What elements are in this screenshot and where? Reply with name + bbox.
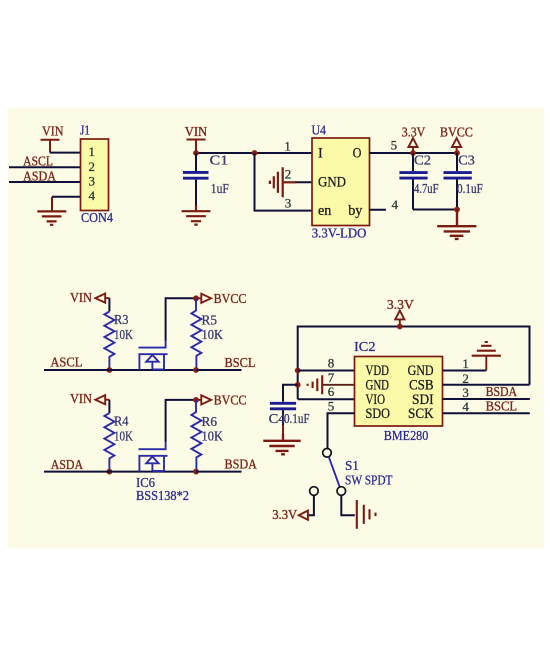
resistor R3 xyxy=(104,312,114,371)
svg-text:10K: 10K xyxy=(202,429,224,444)
svg-text:4: 4 xyxy=(392,197,399,212)
wire IC2 pin3 SDI / BSDA xyxy=(443,398,530,400)
svg-text:J1: J1 xyxy=(80,122,90,137)
junction R6/BSDA xyxy=(193,469,199,475)
wire VIN to R4 xyxy=(108,400,110,413)
svg-text:3: 3 xyxy=(462,385,469,400)
svg-text:1: 1 xyxy=(284,138,291,153)
svg-text:IC2: IC2 xyxy=(354,339,376,354)
svg-text:R6: R6 xyxy=(202,414,218,429)
wire en tie to VIN xyxy=(255,153,313,211)
switch S1 blade xyxy=(329,457,340,487)
svg-text:C2: C2 xyxy=(414,153,431,168)
wire gate2 to BVCC rail xyxy=(166,400,196,442)
resistor R5 xyxy=(191,298,201,370)
svg-text:7: 7 xyxy=(328,370,335,385)
svg-text:VIN: VIN xyxy=(70,392,92,407)
wire throw B to 3.3V xyxy=(308,495,314,515)
capacitor C1 xyxy=(183,153,209,205)
chip IC2 BME280 xyxy=(355,357,443,427)
wire gate to BVCC rail xyxy=(166,298,196,340)
junction 3.3V rail xyxy=(397,324,403,330)
junction BVCC/R6 xyxy=(193,397,199,403)
junction C4 tap xyxy=(295,382,301,388)
junction BVCC/C3 xyxy=(454,150,460,156)
junction BVCC/R5 xyxy=(193,295,199,301)
wire 3.3V rail (top) xyxy=(298,327,530,400)
wire J1 pin3 ASDA xyxy=(9,181,81,183)
junction R5/BSCL xyxy=(193,367,199,373)
junction R4/ASDA xyxy=(107,469,113,475)
junction VIN/C1 xyxy=(193,150,199,156)
wire U4 pin2 to ground xyxy=(295,181,312,183)
svg-text:SW SPDT: SW SPDT xyxy=(345,472,393,487)
ground symbol (J1) xyxy=(37,211,66,224)
svg-text:2: 2 xyxy=(89,159,96,174)
svg-text:R3: R3 xyxy=(114,312,129,327)
power port BVCC (LDO) xyxy=(452,138,461,153)
wire ASCL xyxy=(44,369,196,371)
switch S1 throw A xyxy=(337,487,346,496)
switch S1 throw B xyxy=(310,487,319,496)
junction 3.3V/C2 xyxy=(410,150,416,156)
schematic canvas xyxy=(8,108,544,548)
svg-text:10K: 10K xyxy=(114,327,133,342)
regulator U4 xyxy=(312,138,370,226)
resistor R4 xyxy=(104,413,114,472)
svg-text:1uF: 1uF xyxy=(211,181,229,196)
svg-text:BSCL: BSCL xyxy=(225,356,256,371)
svg-text:VIN: VIN xyxy=(42,124,64,139)
wire U4 by stub xyxy=(370,209,387,211)
wire IC2 pin2 CSB xyxy=(443,384,530,386)
svg-text:8: 8 xyxy=(328,356,335,371)
svg-text:CON4: CON4 xyxy=(81,210,113,225)
svg-text:by: by xyxy=(348,203,363,219)
wire U4 output xyxy=(370,152,458,154)
junction VIN/en xyxy=(252,150,258,156)
wire C4 branch xyxy=(283,385,298,402)
svg-text:O: O xyxy=(353,146,362,162)
svg-text:0.1uF: 0.1uF xyxy=(284,411,310,426)
svg-text:0.1uF: 0.1uF xyxy=(457,181,483,196)
connector J1 xyxy=(81,139,109,211)
power port 3.3V (BME280) xyxy=(395,311,404,327)
transistor IC6 (ASDA shifter) xyxy=(139,442,168,472)
wire J1 pin1 xyxy=(50,152,81,154)
power port VIN (LDO input) xyxy=(187,140,206,153)
svg-text:S1: S1 xyxy=(345,458,359,473)
svg-text:C1: C1 xyxy=(210,153,229,168)
svg-text:1: 1 xyxy=(89,144,96,159)
svg-text:10K: 10K xyxy=(202,327,224,342)
ground symbol (IC2 pin1, inverted) xyxy=(472,342,501,356)
wire IC2 pin4 SCK / BSCL xyxy=(443,412,530,414)
svg-text:BSS138*2: BSS138*2 xyxy=(136,488,189,503)
svg-text:VIN: VIN xyxy=(70,291,92,306)
wire ASDA xyxy=(44,471,196,473)
power port 3.3V (LDO) xyxy=(408,138,417,153)
svg-text:6: 6 xyxy=(328,384,335,399)
power port VIN (shifter 1, arrow left) xyxy=(95,294,109,303)
svg-text:3.3V: 3.3V xyxy=(402,125,426,140)
svg-text:R5: R5 xyxy=(202,312,218,327)
junction VDD tap xyxy=(295,368,301,374)
svg-text:3: 3 xyxy=(89,174,96,189)
svg-text:1: 1 xyxy=(462,356,469,371)
switch S1 pole xyxy=(323,449,332,458)
svg-text:3.3V-LDO: 3.3V-LDO xyxy=(312,225,367,240)
capacitor C3 xyxy=(444,153,472,210)
resistor R6 xyxy=(191,400,201,472)
wire BSCL xyxy=(196,369,242,371)
ground symbol (C1) xyxy=(182,205,211,225)
wire BSDA xyxy=(196,471,242,473)
ground symbol (C4) xyxy=(263,434,300,454)
power port VIN (J1) xyxy=(41,140,60,153)
svg-text:R4: R4 xyxy=(114,414,129,429)
ground symbol (S1, rotated right) xyxy=(357,500,376,529)
capacitor C2 xyxy=(399,153,427,210)
svg-text:4: 4 xyxy=(462,399,469,414)
svg-text:BVCC: BVCC xyxy=(214,394,247,409)
svg-text:4.7uF: 4.7uF xyxy=(414,181,439,196)
wire pin1 ground stub xyxy=(485,357,487,371)
svg-text:3.3V: 3.3V xyxy=(272,508,297,523)
wire J1 pin4 to ground xyxy=(52,196,81,198)
svg-text:BSDA: BSDA xyxy=(486,385,518,400)
transistor Q (ASCL shifter) xyxy=(139,341,168,371)
capacitor C4 xyxy=(270,403,296,434)
svg-text:C3: C3 xyxy=(458,153,475,168)
svg-text:U4: U4 xyxy=(312,122,327,137)
power port BVCC (shifter 1, arrow right) xyxy=(196,294,211,303)
wire IC2 pin6 VIO xyxy=(298,398,355,400)
svg-text:3: 3 xyxy=(285,196,292,211)
wire C2/C3 bottoms xyxy=(413,209,457,211)
wire J1 pin2 ASCL xyxy=(9,166,81,168)
svg-text:BVCC: BVCC xyxy=(214,292,247,307)
svg-text:5: 5 xyxy=(391,138,398,153)
wire VIN to U4 pin1 xyxy=(196,152,312,154)
svg-text:BME280: BME280 xyxy=(384,428,429,443)
junction R3/ASCL xyxy=(107,367,113,373)
svg-text:SCK: SCK xyxy=(408,406,434,422)
svg-text:10K: 10K xyxy=(114,429,133,444)
power port BVCC (shifter 2, arrow right) xyxy=(196,395,211,404)
svg-text:4: 4 xyxy=(89,188,96,203)
svg-text:I: I xyxy=(318,146,323,162)
ground symbol (IC2 pin7, rotated left) xyxy=(308,375,323,394)
wire throw A to ground xyxy=(341,495,355,515)
svg-text:ASDA: ASDA xyxy=(51,458,84,473)
svg-text:2: 2 xyxy=(285,167,292,182)
svg-text:en: en xyxy=(318,203,331,219)
ground symbol (C2/C3) xyxy=(437,210,476,239)
power port 3.3V (S1, arrow left) xyxy=(299,511,308,520)
wire IC2 pin5 SDO to switch xyxy=(328,413,355,448)
junction C3/ground xyxy=(454,207,460,213)
wire IC2 pin1 GND xyxy=(443,370,487,372)
wire IC2 pin8 VDD xyxy=(298,370,355,372)
svg-text:GND: GND xyxy=(318,174,346,190)
svg-text:VIN: VIN xyxy=(185,125,208,140)
svg-text:SDO: SDO xyxy=(366,406,391,422)
svg-text:BSDA: BSDA xyxy=(225,457,258,472)
svg-text:BVCC: BVCC xyxy=(440,125,473,140)
wire IC2 pin7 to ground xyxy=(323,384,355,386)
svg-text:ASCL: ASCL xyxy=(50,356,82,371)
wire VIN to R3 xyxy=(108,298,110,311)
ground symbol (U4 pin2, rotated left) xyxy=(270,167,297,197)
svg-text:BSCL: BSCL xyxy=(486,399,517,414)
svg-text:5: 5 xyxy=(328,399,335,414)
power port VIN (shifter 2, arrow left) xyxy=(95,395,109,404)
